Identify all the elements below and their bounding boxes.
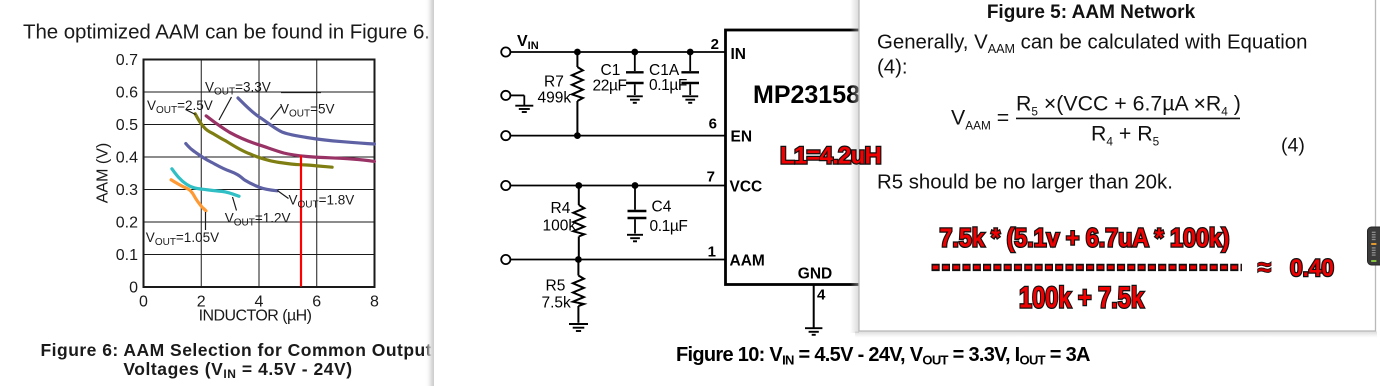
svg-text:0: 0 bbox=[129, 280, 138, 297]
svg-text:R7: R7 bbox=[544, 74, 564, 91]
ground (C1) bbox=[627, 96, 643, 103]
svg-text:6: 6 bbox=[709, 116, 717, 133]
svg-text:100k: 100k bbox=[543, 218, 577, 235]
svg-text:(4):: (4): bbox=[877, 57, 908, 79]
pin 4 wire bbox=[813, 285, 815, 328]
label VOUT=5V bbox=[271, 102, 335, 120]
terminal VCC bbox=[501, 181, 510, 190]
svg-text:0.6: 0.6 bbox=[116, 85, 138, 102]
resistor R7 bbox=[572, 52, 583, 136]
terminal VIN bbox=[501, 47, 510, 56]
svg-text:6: 6 bbox=[312, 294, 321, 311]
ground (pin 4) bbox=[805, 328, 822, 335]
panel shadow left bbox=[850, 0, 859, 333]
ground (C4) bbox=[627, 235, 643, 242]
curve VOUT=2.5V bbox=[195, 114, 332, 167]
junction dots bbox=[574, 49, 694, 263]
svg-text:VCC: VCC bbox=[730, 179, 763, 196]
panel shadow bottom bbox=[855, 332, 1377, 338]
svg-text:7.5k: 7.5k bbox=[542, 295, 572, 312]
label VOUT=3.3V bbox=[205, 80, 321, 121]
svg-text:INDUCTOR (µH): INDUCTOR (µH) bbox=[199, 308, 312, 325]
y axis tick labels bbox=[116, 52, 138, 297]
svg-text:7.5k * (5.1v + 6.7uA * 100k): 7.5k * (5.1v + 6.7uA * 100k) bbox=[940, 223, 1230, 253]
svg-text:0.1µF: 0.1µF bbox=[650, 218, 688, 235]
curve VOUT=3.3V bbox=[238, 98, 374, 144]
ground (terminal) bbox=[515, 106, 533, 112]
IC U1 MP23158 box bbox=[726, 30, 1006, 285]
svg-text:AAM (V): AAM (V) bbox=[95, 143, 112, 203]
ground (C1A) bbox=[682, 96, 698, 103]
ground (R5) bbox=[569, 324, 588, 331]
wire EN line bbox=[510, 135, 725, 137]
svg-text:0.1µF: 0.1µF bbox=[649, 77, 687, 94]
resistor R5 bbox=[573, 260, 584, 323]
label VOUT=2.5V bbox=[147, 98, 213, 116]
svg-text:Generally, VAAM can be calcula: Generally, VAAM can be calculated with E… bbox=[877, 32, 1307, 56]
svg-text:C4: C4 bbox=[652, 199, 672, 216]
terminal AAM bbox=[501, 255, 510, 264]
page separator shadow bbox=[425, 0, 434, 386]
svg-text:IN: IN bbox=[731, 46, 747, 63]
svg-text:0.3: 0.3 bbox=[116, 182, 138, 199]
svg-text:R5 should be no larger than 20: R5 should be no larger than 20k. bbox=[877, 172, 1173, 194]
curve VOUT=1.2V bbox=[172, 169, 239, 197]
wire VIN to pin2 bbox=[510, 51, 725, 53]
wire AAM line bbox=[510, 259, 725, 261]
curve VOUT=1.05V bbox=[171, 180, 206, 211]
resistor R4 bbox=[573, 186, 584, 260]
svg-text:100k + 7.5k: 100k + 7.5k bbox=[1019, 282, 1144, 315]
svg-text:R5: R5 bbox=[546, 278, 566, 295]
svg-text:7: 7 bbox=[707, 169, 715, 186]
panel card bbox=[859, 0, 1376, 331]
svg-text:L1=4.2uH: L1=4.2uH bbox=[780, 143, 881, 170]
capacitor C4 bbox=[628, 186, 647, 234]
svg-text:4: 4 bbox=[817, 287, 826, 304]
svg-text:2: 2 bbox=[711, 36, 719, 53]
svg-text:C1: C1 bbox=[601, 62, 621, 79]
svg-text:22µF: 22µF bbox=[593, 78, 627, 95]
svg-text:The optimized AAM can be found: The optimized AAM can be found in Figure… bbox=[23, 21, 430, 44]
svg-text:≈: ≈ bbox=[1258, 254, 1272, 282]
annotation dashed fraction line bbox=[932, 264, 1243, 271]
svg-text:0.5: 0.5 bbox=[116, 117, 138, 134]
svg-text:8: 8 bbox=[370, 294, 379, 311]
svg-text:0.4: 0.4 bbox=[116, 150, 138, 167]
terminal gnd row bbox=[501, 91, 524, 105]
label VOUT=1.8V bbox=[277, 191, 354, 211]
svg-text:(4): (4) bbox=[1281, 135, 1305, 157]
curve VOUT=1.8V bbox=[186, 144, 277, 191]
svg-text:MP23158: MP23158 bbox=[753, 81, 860, 109]
svg-text:AAM: AAM bbox=[730, 253, 765, 270]
chart plot grid bbox=[144, 60, 375, 288]
chart plot border bbox=[144, 60, 375, 288]
x axis tick labels bbox=[139, 294, 379, 311]
svg-text:EN: EN bbox=[731, 129, 753, 146]
capacitor C1A bbox=[681, 52, 699, 95]
equation fraction bar bbox=[1016, 117, 1240, 119]
svg-text:GND: GND bbox=[798, 266, 832, 283]
svg-text:0.2: 0.2 bbox=[116, 215, 138, 232]
svg-text:Figure 6: AAM Selection for Co: Figure 6: AAM Selection for Common Outpu… bbox=[41, 340, 432, 360]
wire VCC line bbox=[510, 185, 725, 187]
svg-text:1: 1 bbox=[708, 244, 716, 261]
svg-text:R5 ×(VCC + 6.7µA ×R4 ): R5 ×(VCC + 6.7µA ×R4 ) bbox=[1016, 92, 1241, 119]
svg-text:R4: R4 bbox=[551, 200, 571, 217]
svg-text:0.7: 0.7 bbox=[116, 52, 138, 69]
svg-text:R4 + R5: R4 + R5 bbox=[1091, 122, 1160, 149]
svg-text:0: 0 bbox=[139, 294, 148, 311]
label VOUT=1.05V bbox=[146, 212, 219, 248]
capacitor C1 bbox=[626, 52, 644, 95]
svg-text:Figure 5: AAM Network: Figure 5: AAM Network bbox=[987, 2, 1196, 23]
red marker line bbox=[300, 156, 302, 287]
terminal EN bbox=[501, 131, 510, 140]
label VOUT=1.2V bbox=[225, 197, 291, 229]
svg-text:0.40: 0.40 bbox=[1290, 255, 1334, 282]
svg-text:Voltages (VIN = 4.5V - 24V): Voltages (VIN = 4.5V - 24V) bbox=[123, 359, 352, 381]
svg-text:0.1: 0.1 bbox=[116, 247, 138, 264]
svg-text:499k: 499k bbox=[538, 90, 572, 107]
curve VOUT=5V bbox=[206, 116, 374, 161]
